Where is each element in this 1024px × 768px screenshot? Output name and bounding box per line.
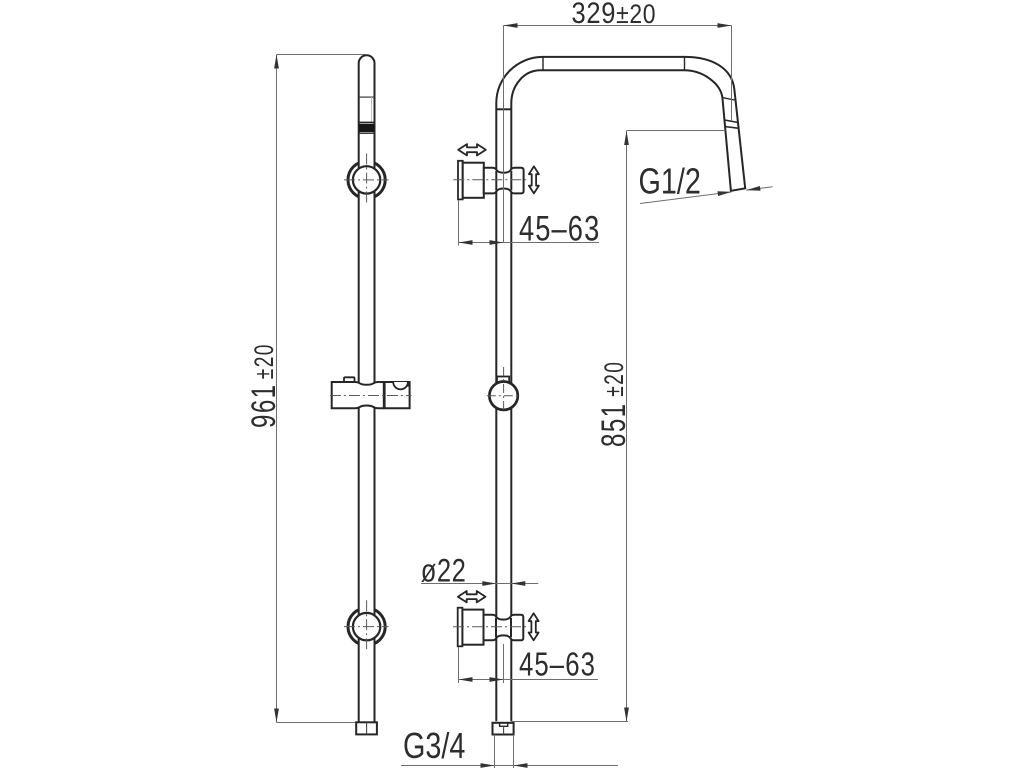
main block — [463, 163, 484, 198]
slider joint tab — [497, 377, 509, 384]
G1/2 arrow right — [746, 186, 760, 193]
arm tangent line left — [542, 57, 544, 70]
slider centerline — [330, 395, 412, 397]
upper mount centerlines — [344, 179, 389, 181]
svg-text:G3/4: G3/4 — [403, 725, 465, 766]
arm tangent line right — [684, 57, 686, 70]
45-63 lower dimension line — [459, 679, 599, 681]
329 dimension line — [504, 25, 732, 27]
lower mount knob — [353, 613, 380, 640]
svg-text:45–63: 45–63 — [519, 647, 596, 684]
upper mount vertical centerline — [366, 154, 368, 203]
G1/2 leader right segment — [746, 187, 772, 190]
nozzle break line 1 — [724, 120, 738, 123]
rail section line — [359, 96, 375, 98]
svg-text:851±20: 851±20 — [595, 361, 633, 447]
svg-text:G1/2: G1/2 — [639, 160, 701, 201]
G3/4 arrow left — [481, 763, 495, 768]
horizontal adjust arrow — [458, 144, 486, 155]
329 extension right — [731, 26, 733, 122]
bend tangent line right — [722, 97, 735, 100]
45-63 lower arrow left — [459, 677, 473, 682]
329 extension left / pipe axis — [503, 26, 505, 243]
lower wall mount outer ring — [348, 608, 385, 645]
329 arrow right — [718, 23, 732, 28]
rail body — [359, 55, 375, 721]
oe22 arrow left — [482, 581, 496, 586]
bracket centerline — [453, 179, 526, 181]
851 extension top — [627, 130, 726, 132]
lower mount vertical centerline — [366, 600, 368, 649]
dimension line 961 — [276, 55, 278, 723]
G1/2 leader left segment — [640, 192, 732, 204]
45-63 upper extension left — [458, 201, 460, 246]
rail bottom cap — [356, 722, 377, 734]
slider joint circle — [489, 382, 517, 410]
upper holder bracket — [453, 144, 539, 199]
G3/4 extension left — [494, 735, 496, 768]
riser joint line — [496, 108, 511, 110]
arrow 961 bottom — [274, 709, 279, 723]
G3/4 extension right — [513, 735, 515, 768]
rail stop ring (black band) — [359, 124, 374, 132]
pipe edges through clamp — [495, 171, 497, 190]
pipe edge right through clamp — [510, 171, 512, 190]
329 arrow left — [504, 23, 518, 28]
rail inner edge line — [371, 97, 373, 122]
fitting notch — [500, 723, 508, 727]
G3/4 arrow right — [514, 763, 528, 768]
dimension 961 bottom extension line — [277, 722, 357, 724]
svg-text:961±20: 961±20 — [245, 343, 283, 428]
851 arrow top — [624, 131, 629, 145]
upper mount knob — [353, 166, 380, 193]
G3/4 dimension line — [401, 765, 618, 767]
slider notch — [393, 382, 408, 389]
svg-text:ø22: ø22 — [421, 554, 467, 589]
column + arm outline — [496, 57, 745, 721]
lower mount centerlines — [344, 626, 389, 628]
rail outline — [359, 55, 375, 721]
851 dimension line — [626, 131, 628, 722]
45-63 upper arrow right — [490, 240, 504, 245]
joint centerlines — [487, 395, 520, 397]
45-63 lower extension center — [503, 644, 505, 683]
45-63 upper arrow left — [459, 240, 473, 245]
upper wall mount outer ring — [348, 161, 385, 198]
45-63 upper dimension line — [459, 242, 600, 244]
oe22 arrow right — [511, 581, 525, 586]
slider tick — [407, 382, 409, 387]
slider divider — [383, 382, 386, 408]
dimension 961 top extension line — [277, 54, 366, 56]
stop ring bottom edge — [359, 132, 375, 134]
column + arm fill — [496, 57, 745, 721]
svg-text:329±20: 329±20 — [572, 0, 657, 30]
slider holder tab — [344, 377, 355, 383]
851 arrow bottom — [624, 708, 629, 722]
fitting center line — [503, 726, 505, 734]
bottom fitting — [493, 723, 514, 735]
arrow 961 top — [274, 55, 279, 69]
G1/2 arrow left — [718, 190, 732, 197]
slider holder body — [332, 382, 410, 408]
svg-text:45–63: 45–63 — [519, 209, 600, 248]
851 extension bottom — [511, 721, 628, 723]
45-63 lower extension left — [458, 647, 460, 683]
flange — [458, 161, 463, 200]
cap center line — [366, 722, 368, 734]
lower holder bracket — [453, 591, 539, 646]
joint vertical centerline — [503, 367, 505, 410]
45-63 lower arrow right — [490, 677, 504, 682]
clamp block — [484, 168, 524, 194]
nozzle break line 2 — [725, 127, 740, 129]
oe22 dimension line — [421, 583, 538, 585]
vertical adjust arrow — [529, 166, 539, 193]
stop ring top edge — [359, 121, 375, 123]
